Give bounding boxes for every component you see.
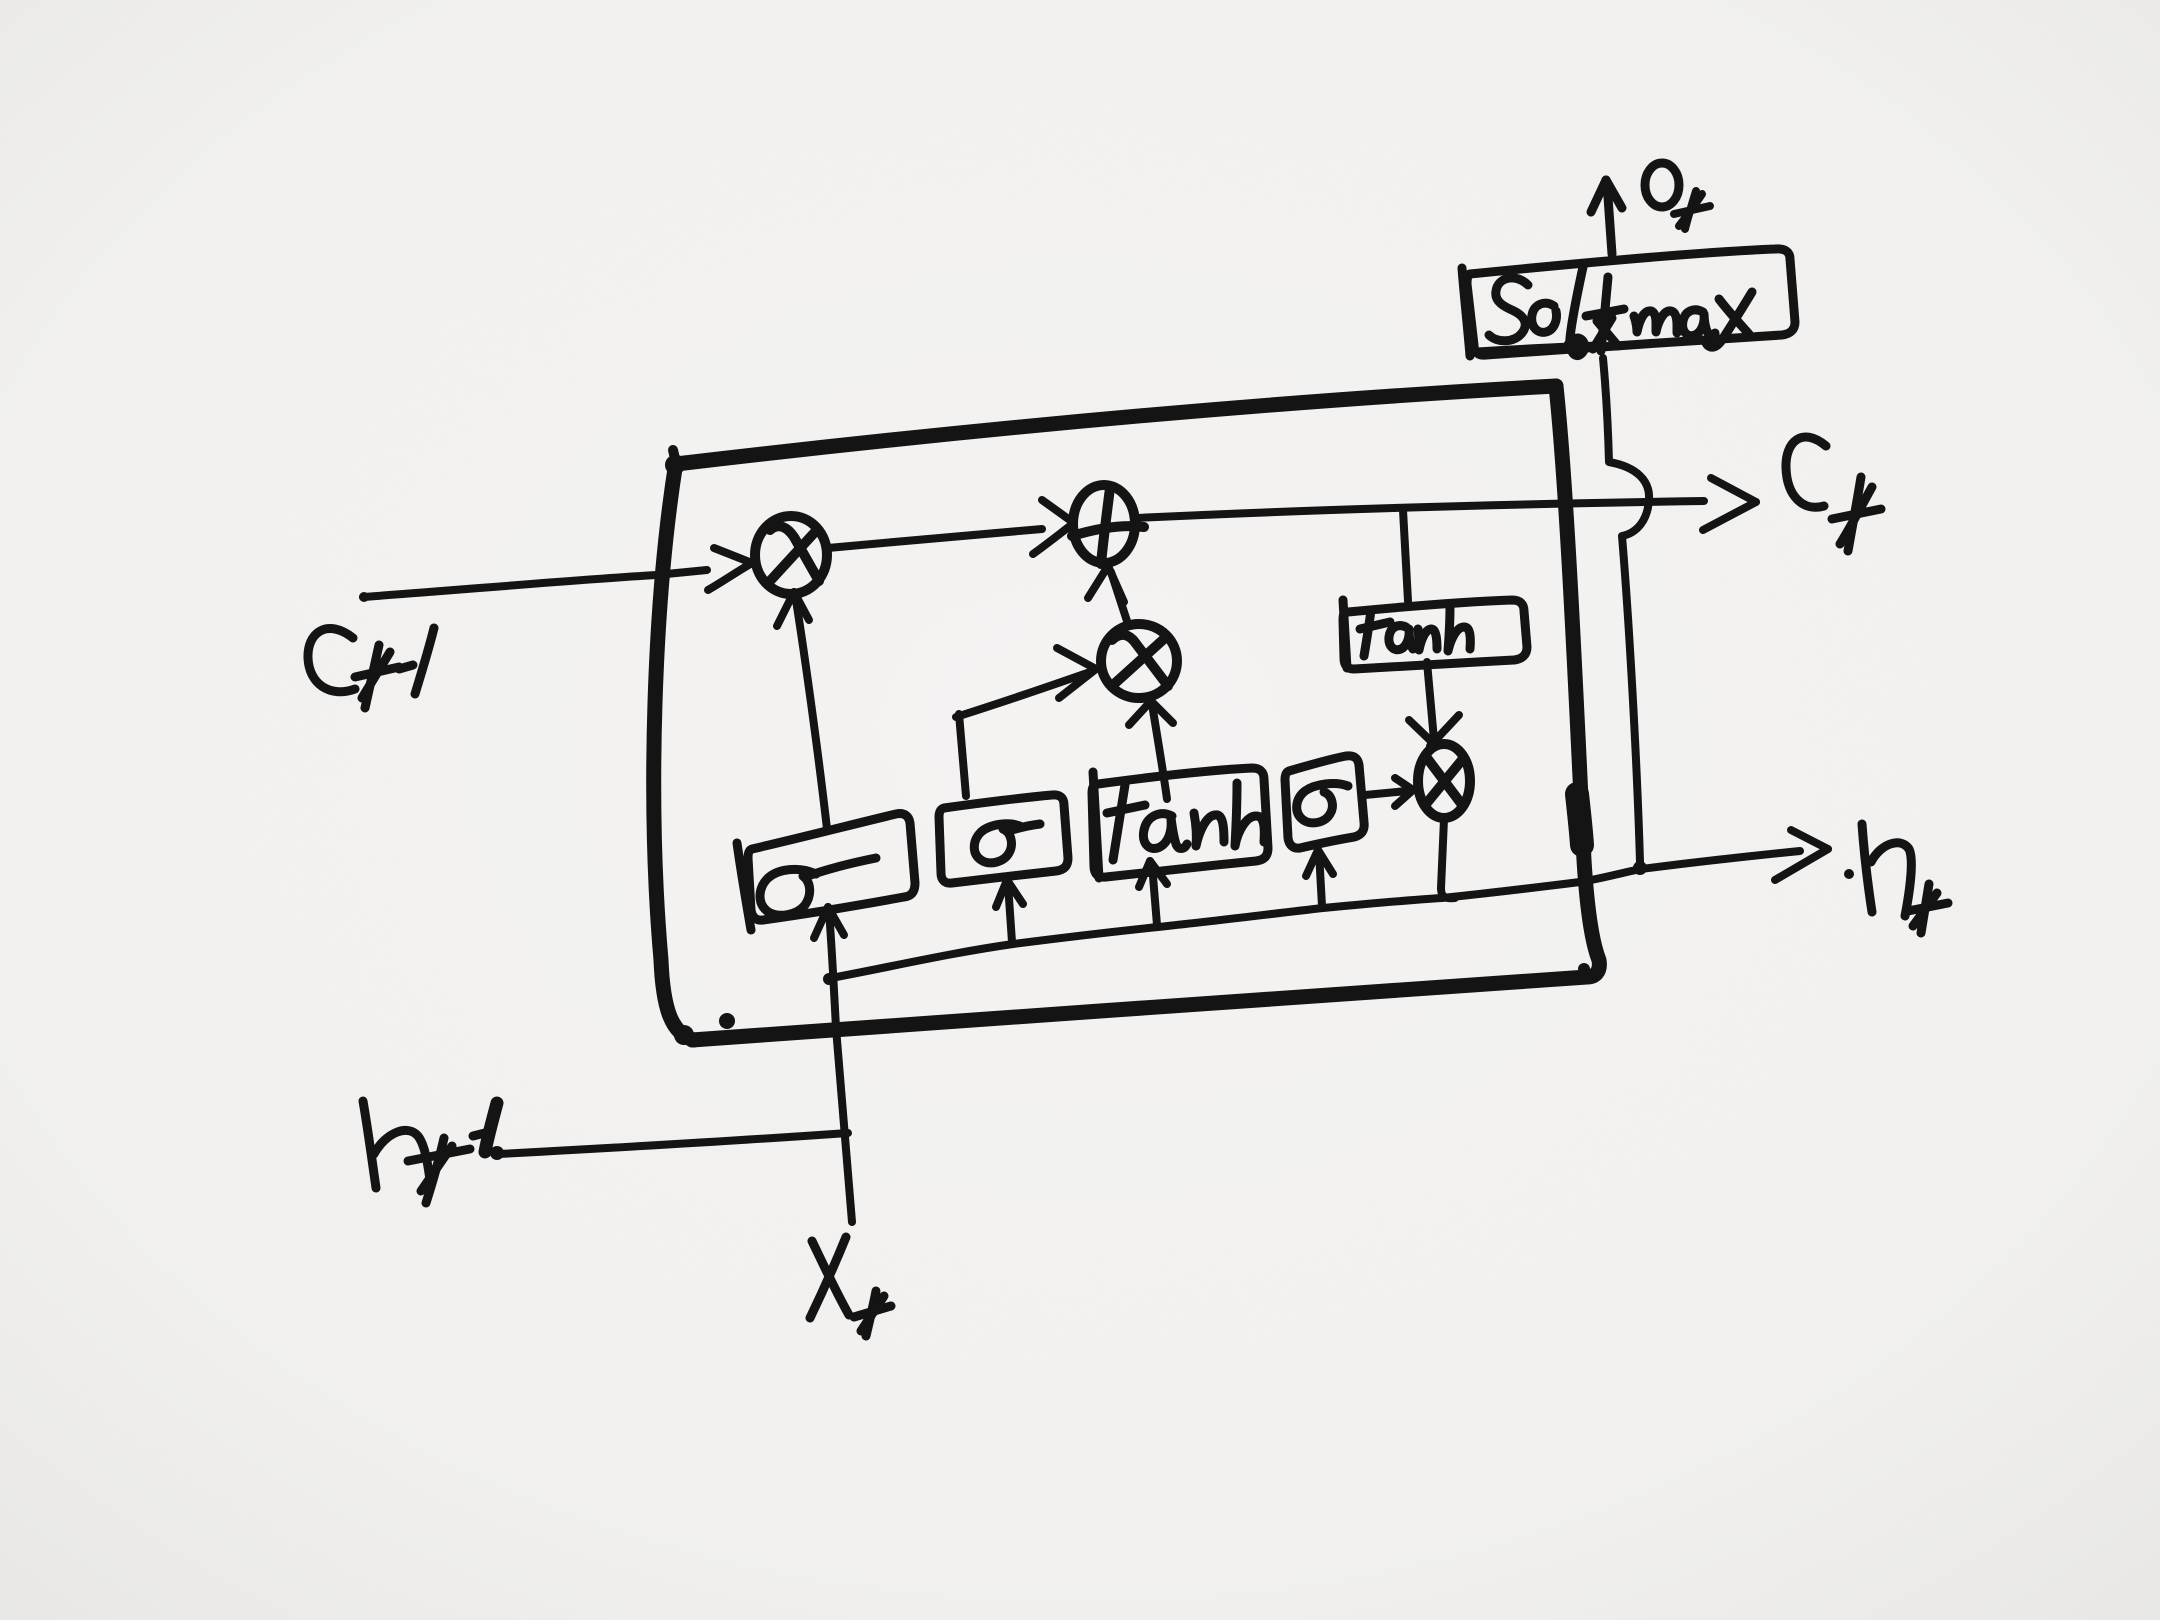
wire G2 up and to multiply M2 [956,648,1096,796]
wire T2 to multiply M3 [1409,662,1459,746]
wire M2 to T1 [1129,701,1173,799]
sigma box G3 (output gate) [1285,756,1364,848]
corner blob top-left [665,455,685,475]
label ht [1844,869,1854,879]
arrow bus to G3 [1306,850,1333,906]
wire M3 down to bus [1441,819,1455,898]
wire G1 up to M1 [777,592,827,829]
add node A1 [1072,485,1144,564]
tanh text T1 [1107,783,1264,860]
label Ct [1786,437,1881,551]
softmax box [1462,249,1795,356]
junction dot softmax-h [1633,861,1647,875]
wire M1 to add node [828,500,1074,554]
softmax text [1489,267,1752,356]
LSTM cell box outline [654,386,1600,1040]
tanh box T1 (candidate) [1092,768,1268,878]
arrow G3 to M3 [1365,778,1413,806]
wire add node to Ct output [1136,478,1756,530]
wire ht-1 input [499,1133,848,1154]
multiply node M3 (output product) [1418,744,1470,818]
corner blob bottom-left [674,1025,694,1045]
wire Xt input [814,907,852,1222]
wire bus to ht output [831,830,1828,978]
label Xt [810,1237,891,1336]
re-stroke blob on right edge [1577,794,1582,845]
arrow bus to T1 [1139,861,1167,925]
wire branch down to tanh T2 [1403,510,1408,601]
junction dot bottom-right corner [1578,963,1590,975]
stray ink dot near bottom-left corner [719,1013,735,1029]
tanh text T2 [1360,606,1470,656]
arrow bus to G2 [996,880,1023,942]
sigma box G2 (input gate) [939,795,1068,883]
softmax output arrow [1591,180,1622,254]
multiply node M2 (input product) [1101,624,1177,698]
arrow M2 to add node [1088,566,1127,621]
label Ot [1645,163,1710,229]
wire Ct-1 input [363,548,752,597]
label Ct-1 [308,628,434,708]
sigma box G1 (forget gate) [737,813,915,930]
tanh box T2 [1343,600,1527,669]
wire softmax down to h line with hop over C line [1603,358,1649,862]
label ht-1 [363,1101,489,1203]
multiply node M1 (forget gate product) [755,516,827,594]
junction dot bus start [823,973,835,985]
